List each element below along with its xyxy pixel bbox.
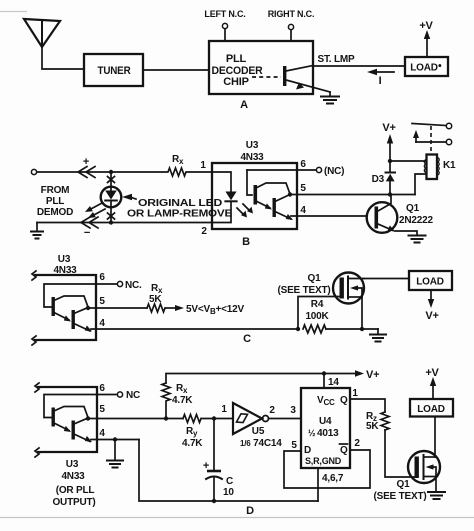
svg-text:+: +	[203, 460, 209, 472]
svg-text:4: 4	[99, 428, 105, 439]
X cut mark bottom	[108, 213, 115, 219]
drain wire to LOAD	[364, 278, 409, 280]
optocoupler U3 box (section B)	[212, 163, 297, 229]
resistor Ry 4.7K series	[182, 415, 203, 450]
LED inside U3 (B)	[212, 172, 237, 223]
light arrows inside U3 (B)	[237, 204, 253, 218]
svg-text:K1: K1	[443, 160, 456, 171]
svg-text:U4: U4	[319, 416, 332, 427]
node ground (D)	[113, 437, 117, 441]
svg-text:2: 2	[269, 405, 275, 416]
svg-text:+V: +V	[425, 367, 439, 379]
RIGHT N.C. terminal	[268, 9, 315, 41]
ground (section B left)	[31, 223, 43, 239]
wire R4 to source node	[326, 328, 378, 330]
wire coil bottom to collector node	[415, 174, 426, 195]
svg-text:LOAD: LOAD	[416, 277, 444, 288]
svg-text:C: C	[226, 476, 233, 487]
svg-text:5: 5	[300, 183, 306, 194]
svg-text:C: C	[243, 333, 251, 345]
ST. LMP wire	[313, 65, 405, 67]
V+ rail top (D)	[166, 374, 324, 384]
drain wire to LOAD (D)	[434, 417, 436, 458]
U3 box partial (section C)	[32, 254, 96, 345]
scan artifact bottom line	[0, 517, 474, 519]
wire Rz to gate	[385, 430, 416, 477]
capacitor C 10	[203, 419, 234, 502]
svg-text:U3: U3	[246, 140, 259, 151]
pin 6 NC (section C)	[96, 272, 142, 291]
svg-text:LOAD: LOAD	[417, 404, 445, 415]
svg-text:5: 5	[99, 296, 105, 307]
svg-text:4.7K: 4.7K	[182, 438, 203, 449]
svg-text:D3: D3	[372, 174, 385, 185]
darlington inside U3 (D)	[44, 395, 97, 443]
pin 5 wire (C)	[88, 307, 147, 309]
svg-text:Q1: Q1	[308, 273, 322, 284]
resistor Rx (section B)	[111, 154, 212, 176]
input terminal +	[31, 169, 36, 174]
relay contact top	[412, 123, 452, 128]
resistor Rx 4.7K pullup	[162, 383, 193, 416]
node collector	[388, 192, 392, 196]
svg-text:2: 2	[354, 438, 360, 449]
svg-text:D: D	[304, 445, 311, 456]
resistor R4 100K	[303, 299, 330, 333]
node gate (C)	[296, 327, 300, 331]
S,R,GND pins wire	[318, 468, 344, 501]
pin 6 NC (section D)	[97, 383, 140, 401]
svg-text:U3: U3	[58, 254, 71, 265]
svg-text:NC: NC	[126, 390, 140, 401]
darlington inside U3 (C)	[44, 284, 96, 332]
svg-text:4.7K: 4.7K	[172, 395, 193, 406]
diode D3	[372, 161, 395, 195]
node capacitor bottom	[212, 499, 216, 503]
svg-text:4: 4	[99, 318, 105, 329]
node D3 top	[388, 159, 392, 163]
wire inverter out to U4	[269, 418, 302, 420]
svg-text:ORIGINAL LED: ORIGINAL LED	[138, 198, 222, 209]
svg-text:I: I	[379, 75, 382, 87]
inverter U5 1/6 74C14	[221, 403, 282, 449]
svg-text:+V: +V	[419, 20, 433, 32]
svg-text:FROM: FROM	[41, 185, 70, 196]
svg-text:(SEE TEXT): (SEE TEXT)	[277, 285, 330, 296]
X cut mark top	[108, 172, 115, 187]
V+ rail arrow	[324, 369, 379, 381]
relay contact bottom with arrow	[413, 130, 452, 145]
scan artifact top-left mark	[0, 11, 27, 13]
dashed base line	[252, 76, 281, 78]
pin 4 wire	[291, 215, 367, 217]
svg-text:PLL: PLL	[46, 196, 64, 207]
relay linkage dashed	[430, 126, 432, 154]
node bottom (LED)	[109, 220, 113, 224]
node top (LED)	[109, 170, 113, 174]
svg-text:4,6,7: 4,6,7	[322, 473, 344, 484]
pin 4 wire (D)	[91, 439, 139, 441]
svg-text:5K: 5K	[366, 421, 379, 432]
LED (original, to remove)	[101, 187, 122, 222]
transistor inside PLL chip	[283, 66, 330, 93]
darlington Q (section B) inside U3	[247, 170, 293, 220]
wire emitter to ground	[395, 231, 417, 235]
svg-text:6: 6	[99, 383, 105, 394]
svg-text:U3: U3	[66, 459, 79, 470]
svg-text:5: 5	[291, 440, 297, 451]
svg-text:2: 2	[201, 226, 207, 237]
tuner box	[84, 54, 143, 86]
svg-text:U5: U5	[252, 426, 265, 437]
svg-text:CHIP: CHIP	[223, 76, 248, 88]
svg-text:½: ½	[308, 428, 316, 438]
pin 6 wire + (NC)	[247, 159, 344, 177]
node pin5	[288, 192, 292, 196]
pin 5 wire	[290, 194, 415, 196]
ground (section A)	[321, 92, 339, 104]
svg-text:Q: Q	[340, 445, 348, 456]
svg-text:6: 6	[300, 159, 306, 170]
LOAD box (section D)	[410, 399, 453, 417]
relay K1 coil	[424, 155, 456, 180]
svg-text:4N33: 4N33	[240, 152, 264, 163]
node pin5 (C)	[86, 306, 90, 310]
wire antenna to tuner	[42, 47, 83, 69]
svg-text:+: +	[83, 156, 89, 168]
PLL decoder chip box	[209, 41, 313, 94]
U3 box partial (section D)	[35, 383, 97, 508]
svg-text:4N33: 4N33	[61, 471, 85, 482]
svg-text:(OR PLL: (OR PLL	[56, 485, 95, 496]
wire V+ to relay coil	[390, 160, 426, 162]
svg-text:10: 10	[223, 487, 234, 498]
Q output pin 1 wire	[350, 399, 385, 412]
FROM PLL DEMOD label	[37, 185, 73, 218]
gate wire up	[298, 297, 341, 330]
ground (section B right)	[409, 236, 426, 243]
svg-text:OR LAMP-REMOVE: OR LAMP-REMOVE	[127, 209, 233, 220]
svg-text:(SEE TEXT): (SEE TEXT)	[373, 491, 426, 502]
chevrons bottom	[81, 217, 98, 239]
svg-text:(NC): (NC)	[324, 166, 344, 177]
svg-text:1: 1	[200, 160, 206, 171]
svg-text:Q1: Q1	[406, 203, 420, 214]
svg-text:−: −	[84, 227, 90, 239]
antenna	[24, 19, 60, 47]
V+ arrow (section B)	[382, 122, 395, 161]
svg-text:LEFT N.C.: LEFT N.C.	[204, 9, 245, 19]
pin 5 wire (D)	[88, 418, 183, 420]
svg-text:LOAD●: LOAD●	[410, 63, 442, 74]
svg-text:B: B	[242, 236, 250, 248]
LOAD box (section C)	[409, 271, 452, 290]
callout ORIGINAL LED OR LAMP-REMOVE	[122, 194, 233, 220]
Qbar to D feedback loop	[284, 438, 370, 488]
svg-text:Q1: Q1	[397, 479, 411, 490]
node pin5 (D)	[86, 416, 90, 420]
svg-text:S,R,GND: S,R,GND	[305, 456, 342, 466]
svg-text:R4: R4	[311, 299, 324, 310]
svg-text:1: 1	[352, 388, 358, 399]
wire tuner to PLL chip	[143, 69, 209, 71]
wire bottom input	[37, 222, 212, 224]
ground (section C)	[370, 329, 386, 342]
svg-text:5K: 5K	[149, 294, 162, 305]
svg-text:A: A	[240, 99, 248, 111]
svg-text:ST. LMP: ST. LMP	[318, 54, 355, 65]
LOAD box (section A)	[405, 57, 448, 76]
svg-text:TUNER: TUNER	[98, 65, 131, 77]
svg-text:V+: V+	[425, 310, 438, 322]
svg-text:2N2222: 2N2222	[399, 215, 433, 226]
ground (section D right)	[428, 492, 445, 499]
LEFT N.C. terminal	[204, 9, 245, 41]
ground (section D left)	[107, 440, 123, 468]
svg-text:1/6 74C14: 1/6 74C14	[240, 438, 282, 449]
svg-text:V+: V+	[382, 122, 395, 134]
chevrons top	[78, 156, 95, 178]
MOSFET Q1 (section C)	[277, 273, 364, 330]
svg-text:4013: 4013	[317, 428, 339, 439]
svg-text:D: D	[246, 505, 254, 517]
+V arrow (section A)	[419, 20, 433, 57]
svg-text:RIGHT N.C.: RIGHT N.C.	[268, 9, 315, 19]
current arrow I	[367, 69, 394, 87]
transistor Q1 2N2222	[367, 196, 434, 233]
svg-text:V+: V+	[366, 369, 379, 381]
svg-text:4N33: 4N33	[53, 265, 77, 276]
node source (C)	[360, 327, 364, 331]
svg-text:5V<VB+<12V: 5V<VB+<12V	[186, 304, 245, 316]
pin 14 wire	[323, 374, 325, 388]
node capacitor top	[212, 416, 216, 420]
svg-text:PLL: PLL	[226, 53, 247, 65]
svg-text:3: 3	[290, 405, 296, 416]
wire pin4 down to bottom rail	[139, 440, 318, 502]
svg-text:5: 5	[99, 404, 105, 415]
svg-text:6: 6	[99, 272, 105, 283]
pin 4 wire (C)	[91, 328, 298, 330]
svg-text:OUTPUT): OUTPUT)	[52, 497, 95, 508]
node V+ rail	[322, 371, 326, 375]
resistor Rz 5K	[366, 411, 389, 432]
V+ arrow down (section C)	[425, 290, 438, 322]
node pullup/pin5	[164, 416, 168, 420]
svg-text:DEMOD: DEMOD	[37, 207, 73, 218]
wire top input	[37, 171, 109, 173]
svg-text:100K: 100K	[305, 311, 329, 322]
svg-text:1: 1	[221, 404, 227, 415]
svg-text:4: 4	[300, 205, 306, 216]
+V arrow (section D)	[425, 367, 439, 399]
arrow to VB	[175, 304, 245, 316]
LED light arrows out	[85, 203, 105, 218]
svg-text:Q: Q	[340, 395, 348, 406]
resistor Rx 5K (section C)	[147, 283, 165, 312]
MOSFET Q1 (section D)	[373, 451, 440, 502]
svg-text:NC.: NC.	[125, 280, 142, 291]
flip-flop U4 1/2 4013 box	[301, 388, 350, 468]
svg-text:14: 14	[328, 377, 339, 388]
